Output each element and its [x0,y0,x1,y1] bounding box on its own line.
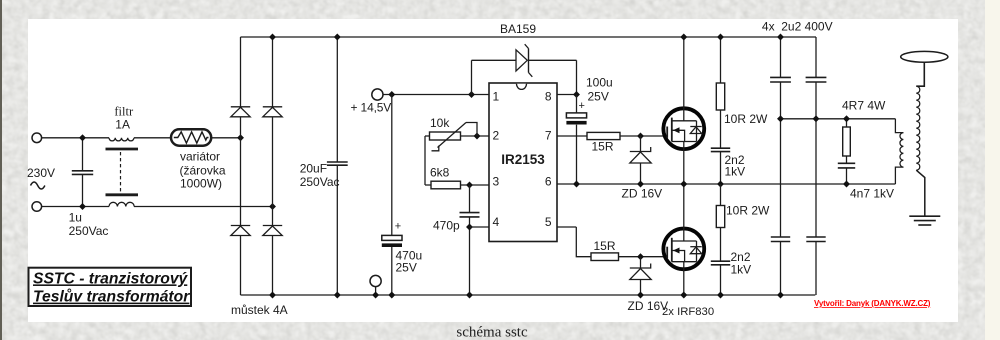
svg-text:2: 2 [493,129,500,143]
svg-text:ZD 16V: ZD 16V [622,187,663,201]
svg-text:můstek 4A: můstek 4A [231,303,288,317]
svg-text:6k8: 6k8 [430,166,450,180]
svg-text:4x 2u2 400V: 4x 2u2 400V [762,20,833,34]
svg-text:250Vac: 250Vac [69,224,109,238]
svg-text:Teslův transformátor: Teslův transformátor [33,288,190,306]
svg-text:+ 14,5V: + 14,5V [351,101,392,115]
svg-text:20uF: 20uF [300,162,327,176]
svg-text:8: 8 [545,90,552,104]
svg-text:1u: 1u [69,211,82,225]
svg-text:1: 1 [493,90,500,104]
svg-text:10R 2W: 10R 2W [724,112,768,126]
svg-text:variátor: variátor [180,150,220,164]
svg-text:6: 6 [545,175,552,189]
svg-text:2x IRF830: 2x IRF830 [662,306,714,318]
svg-text:1000W): 1000W) [180,177,222,191]
svg-text:(žárovka: (žárovka [180,164,226,178]
svg-text:1A: 1A [115,118,130,132]
svg-text:25V: 25V [396,261,417,275]
svg-text:filtr: filtr [114,105,134,119]
svg-text:BA159: BA159 [500,22,536,36]
svg-text:4n7 1kV: 4n7 1kV [850,187,894,201]
svg-text:+: + [395,221,401,233]
svg-text:1kV: 1kV [731,263,752,277]
svg-text:15R: 15R [592,140,614,154]
svg-text:Vytvořil: Danyk (DANYK.WZ.CZ): Vytvořil: Danyk (DANYK.WZ.CZ) [814,299,931,308]
svg-text:7: 7 [545,129,552,143]
svg-text:4R7 4W: 4R7 4W [842,99,886,113]
svg-text:10k: 10k [430,116,450,130]
svg-text:15R: 15R [594,239,616,253]
svg-text:SSTC - tranzistorový: SSTC - tranzistorový [33,270,189,287]
svg-text:470p: 470p [433,219,460,233]
svg-text:3: 3 [493,175,500,189]
svg-text:250Vac: 250Vac [300,175,340,189]
svg-text:1kV: 1kV [725,165,746,179]
svg-text:100u: 100u [586,76,613,90]
svg-text:25V: 25V [588,90,609,104]
svg-text:10R 2W: 10R 2W [726,204,770,218]
svg-text:4: 4 [493,215,500,229]
svg-text:schéma sstc: schéma sstc [456,325,528,340]
svg-text:5: 5 [545,215,552,229]
svg-text:+: + [579,100,585,112]
svg-text:IR2153: IR2153 [501,152,545,167]
svg-text:230V: 230V [27,166,55,180]
